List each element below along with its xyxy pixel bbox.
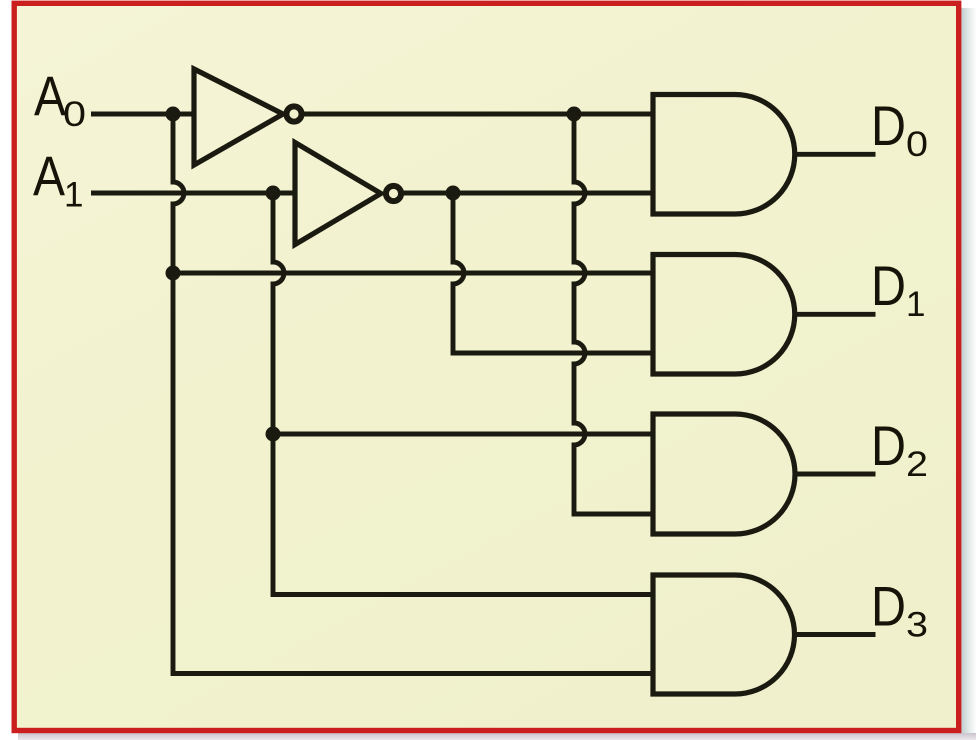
wire G3 output to D2 <box>795 472 876 477</box>
inverter U2 bubble <box>386 186 401 201</box>
wire A0 input to inverter U1 <box>91 112 194 117</box>
AND gate G1 <box>653 95 795 215</box>
svg-text:A: A <box>33 144 66 207</box>
svg-text:D: D <box>871 575 906 638</box>
svg-text:2: 2 <box>906 445 928 484</box>
label D0 <box>871 94 928 164</box>
svg-text:D: D <box>871 254 906 317</box>
junction dot V1/row3 <box>166 266 181 281</box>
junction dot V2/row5 <box>266 427 281 442</box>
label D2 <box>871 414 928 484</box>
svg-text:0: 0 <box>63 95 86 134</box>
inverter U2 triangle <box>295 143 381 245</box>
junction dot notA0/V4 <box>567 107 582 122</box>
wire G2 output to D1 <box>795 312 876 317</box>
label A1 <box>33 144 83 215</box>
svg-text:D: D <box>871 414 906 477</box>
wire G1 output to D0 <box>795 152 876 157</box>
wire vertical V1 (A0 branch) with hop, to AND gate G4 bottom input <box>173 114 653 674</box>
svg-text:0: 0 <box>906 125 928 164</box>
wire A1 branch row to AND gate G3 top input <box>273 432 653 437</box>
wire vertical V3 (not-A1 branch) with hop, to AND gate G2 bottom input <box>453 193 653 353</box>
wire vertical V4 (not-A0 branch) with 4 hops, to AND gate G3 bottom input <box>574 114 653 514</box>
junction dot A0/V1 <box>166 107 181 122</box>
junction dot A1/V2 <box>266 186 281 201</box>
junction dot notA1/V3 <box>446 186 461 201</box>
wire A1 input to inverter U2 <box>91 191 295 196</box>
svg-text:3: 3 <box>906 606 928 645</box>
drop shadow right <box>961 8 976 740</box>
svg-text:D: D <box>871 94 906 157</box>
wire A0 branch row to AND gate G2 top input <box>173 271 653 276</box>
AND gate G4 <box>653 575 795 694</box>
label D3 <box>871 575 928 645</box>
wire U2 output to AND gate G1 bottom input <box>403 191 653 196</box>
wire G4 output to D3 <box>795 632 876 637</box>
wire vertical V2 (A1 branch) with hop, to AND gate G4 top input <box>273 193 653 595</box>
label D1 <box>871 254 925 324</box>
inverter U1 triangle <box>194 69 283 165</box>
AND gate G3 <box>653 414 795 534</box>
svg-text:A: A <box>34 64 67 127</box>
wire U1 output to AND gate G1 top input <box>303 112 653 117</box>
label A0 <box>34 64 86 134</box>
svg-text:1: 1 <box>64 176 83 215</box>
inverter U1 bubble <box>286 106 301 121</box>
svg-text:1: 1 <box>906 285 925 324</box>
AND gate G2 <box>653 255 795 375</box>
drop shadow bottom <box>18 733 976 740</box>
